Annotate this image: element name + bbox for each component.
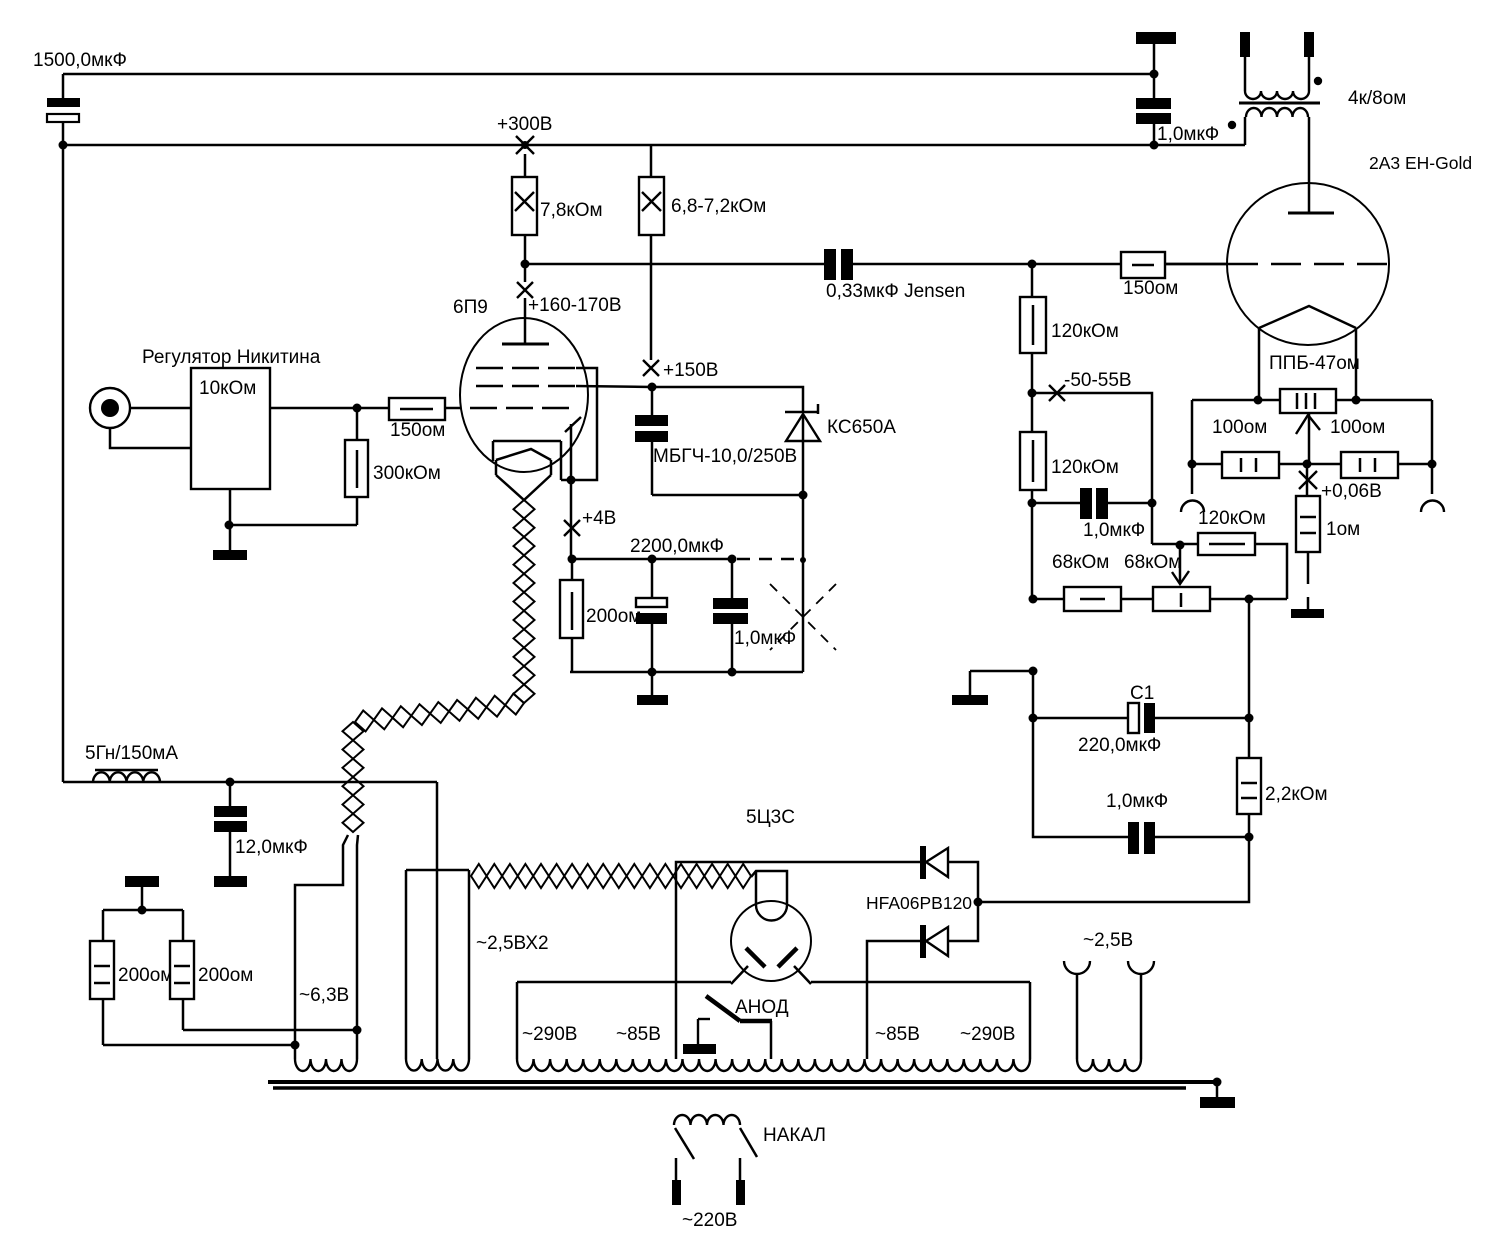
wire 200ом left return [103,1044,295,1047]
resistor R 150ом (2A3 grid stopper) [1121,252,1227,299]
node 1,0мкФ left junction [1028,499,1037,508]
wire screen to +150V node [576,386,652,387]
svg-text:4к/8ом: 4к/8ом [1348,88,1406,109]
tube V3 5Ц3С envelope [731,901,811,981]
node wiper feed junction [1176,541,1185,550]
node core ground [1213,1078,1222,1087]
zener diode КС650А [785,404,896,495]
node filament left junction [1254,396,1263,405]
svg-text:~6,3В: ~6,3В [299,985,349,1006]
wire regulator bottom [229,489,232,550]
winding ~2,5ВХ2 [406,782,469,1071]
svg-text:220,0мкФ: 220,0мкФ [1078,735,1161,756]
node hum rail left [1188,460,1197,469]
node 1,0мкФ top [728,555,737,564]
node cathode bottom left [648,668,657,677]
node 1,0мкФ right junction [1148,499,1157,508]
capacitor C 1,0мкФ (top right) [1136,74,1219,145]
wire hum left drop [1191,400,1194,464]
svg-text:12,0мкФ: 12,0мкФ [235,837,308,858]
node filament right junction [1352,396,1361,405]
resistor R 300кОм [345,408,441,525]
capacitor C 1,0мкФ (cathode) [713,559,796,672]
capacitor C 2200,0мкФ [630,536,724,672]
6П9 cathode lead slash [565,417,581,432]
svg-text:АНОД: АНОД [735,997,789,1018]
wire hum right drop [1431,400,1434,464]
svg-text:C1: C1 [1130,683,1154,704]
node regulator ground junction [225,521,234,530]
svg-text:2A3 EH-Gold: 2A3 EH-Gold [1369,153,1472,173]
wire bias takeoff [1032,393,1152,544]
node 300кОм junction [353,404,362,413]
capacitor C 1500,0мкФ [33,50,127,145]
wire coupling line right [853,263,1121,266]
resistor R 100ом (right) [1341,452,1398,478]
resistor R 6,8-7,2кОм [639,145,766,360]
2A3 anode [1288,212,1334,215]
svg-text:~290В: ~290В [522,1024,577,1045]
diode D1 HFA06PB120 [920,846,978,902]
wire diode2 to 85V tap [867,941,920,1059]
node diode junction [974,898,983,907]
wire heater to filament [751,871,787,905]
6П9 heater zigzag vertical [514,500,535,703]
wire cathode bottom rail [570,671,803,674]
node ground rail / cap junction [1150,70,1159,79]
wire ground rail top [63,73,1154,76]
ground regulator [213,550,247,560]
wire jack ground side [110,428,191,448]
wire 200ом feed [103,910,183,941]
output transformer phasing dot secondary [1314,77,1322,85]
ground 200ом network [125,876,159,910]
svg-text:+0,06В: +0,06В [1321,481,1382,502]
node ground tie junction [1029,667,1038,676]
wire coupling line [525,263,824,266]
svg-text:-50-55В: -50-55В [1064,370,1132,391]
winding НАКАЛ primary [672,1115,826,1231]
resistor R 200ом (right) [170,941,253,1030]
node 6,3V winding right junction [353,1026,362,1035]
node +150V junction [648,383,657,392]
svg-text:100ом: 100ом [1330,417,1385,438]
connector hook right [1421,464,1444,512]
ППБ wiper arrow [1296,414,1320,464]
transformer core [268,1082,1217,1088]
wire heater lead right [357,835,358,1059]
ground cathode network [637,672,668,705]
svg-text:1ом: 1ом [1326,519,1360,540]
svg-text:10кОм: 10кОм [199,378,256,399]
svg-text:300кОм: 300кОм [373,463,441,484]
svg-text:120кОм: 120кОм [1051,321,1119,342]
wire +150V to zener [652,387,803,413]
svg-text:HFA06PB120: HFA06PB120 [866,893,972,913]
wire cathode drop [570,424,573,559]
wire rectifier output [978,814,1249,902]
wire hum rail [1192,463,1432,466]
tube V2 2A3 envelope [1227,183,1389,345]
labels 68кОм 68кОм [1052,552,1181,573]
wire dashed link [737,558,800,561]
svg-text:ППБ-47ом: ППБ-47ом [1269,353,1360,374]
svg-text:МБГЧ-10,0/250В: МБГЧ-10,0/250В [653,446,797,467]
node suppressor/cathode junction [567,476,576,485]
6П9 suppressor tie bracket [561,368,597,480]
node bias output junction [1245,595,1254,604]
2A3 grid dashed [1165,263,1228,266]
svg-text:+150В: +150В [663,360,718,381]
node hum rail center [1303,460,1312,469]
svg-text:+300В: +300В [497,114,552,135]
node 2200мкФ top [648,555,657,564]
ground bias network [952,671,1033,705]
6П9 heater zigzag lower [343,722,364,832]
resistor R 120кОм (upper) [1020,264,1119,432]
wire 200ом right return [183,1029,357,1032]
winding ~2,5В [1064,930,1154,1071]
wire МБГЧ return [652,494,803,497]
svg-text:0,33мкФ Jensen: 0,33мкФ Jensen [826,281,965,302]
node 6,3V winding left junction [291,1041,300,1050]
svg-text:+4В: +4В [582,508,616,529]
node -50-55V junction [1028,389,1037,398]
svg-text:68кОм: 68кОм [1124,552,1181,573]
6П9 cathode [493,441,561,500]
ground core shield [1200,1082,1235,1108]
wire filament rail [1192,399,1432,402]
svg-text:~85В: ~85В [616,1024,661,1045]
svg-text:1,0мкФ: 1,0мкФ [1106,791,1168,812]
wire 300кОм return [229,524,357,527]
svg-text:2200,0мкФ: 2200,0мкФ [630,536,724,557]
6П9 anode [502,298,549,344]
wire bias filter drop [1248,599,1251,758]
test point +4В [564,508,616,536]
resistor R 120кОм (feedback) [1152,508,1287,599]
choke 5Гн/150мА [63,743,437,782]
switch АНОД [683,996,789,1059]
wire bias chain drop [1033,671,1128,837]
resistor R 2,2кОм [1237,758,1328,814]
svg-text:200ом: 200ом [118,965,173,986]
resistor R 150ом (input) [389,398,461,441]
svg-text:200ом: 200ом [198,965,253,986]
node +300V rail junction [1150,141,1159,150]
node cathode bottom right [728,668,737,677]
svg-text:5Гн/150мА: 5Гн/150мА [85,743,178,764]
resistor R 200ом (left) [90,941,173,1045]
svg-text:1,0мкФ: 1,0мкФ [734,628,796,649]
svg-text:100ом: 100ом [1212,417,1267,438]
node zener bottom junction [799,491,808,500]
svg-text:2,2кОм: 2,2кОм [1265,784,1328,805]
svg-text:1,0мкФ: 1,0мкФ [1157,124,1219,145]
output transformer core [1239,102,1320,105]
capacitor C 0,33мкФ Jensen [824,249,965,302]
potentiometer ППБ-47ом [1280,389,1336,413]
node B+ left junction [59,141,68,150]
svg-text:200ом: 200ом [586,606,641,627]
rectifier heater zigzag ~2,5ВХ2 [471,864,751,888]
wire zener drop [802,495,805,672]
wire left B+ drop [62,145,65,782]
wire regulator output [270,407,389,410]
output transformer terminal bars [1240,32,1314,57]
svg-text:150ом: 150ом [390,420,445,441]
svg-text:6,8-7,2кОм: 6,8-7,2кОм [671,196,766,217]
6П9 control grid row [470,407,572,410]
resistor R 100ом (left) [1222,452,1279,478]
test point +150В [643,360,718,381]
svg-text:1500,0мкФ: 1500,0мкФ [33,50,127,71]
node 12,0мкФ junction [226,778,235,787]
test point +160-170В [517,264,622,316]
Никитин regulator box 10кОм [142,347,321,489]
capacitor C МБГЧ-10,0/250В [635,387,797,495]
node cathode rail left [568,555,577,564]
svg-text:~2,5В: ~2,5В [1083,930,1133,951]
wire heater lead left [295,835,348,1059]
svg-text:1,0мкФ: 1,0мкФ [1083,520,1145,541]
5Ц3С anode plates [731,948,811,984]
svg-text:7,8кОм: 7,8кОм [540,200,603,221]
svg-text:КС650А: КС650А [827,417,896,438]
node 68кОм rail left [1029,595,1038,604]
2A3 filament [1259,306,1356,400]
output transformer primary [1245,108,1309,213]
output transformer phasing dot primary [1228,121,1236,129]
svg-text:Регулятор Никитина: Регулятор Никитина [142,347,321,368]
potentiometer R 68кОм [1153,587,1287,611]
connector hook left [1181,464,1204,512]
6П9 suppressor grid row [476,367,576,370]
6П9 screen grid row [476,385,576,388]
diode D2 HFA06PB120 [920,902,978,958]
test point +0,06В [1299,471,1382,502]
resistor R 1ом [1296,464,1360,609]
svg-text:150ом: 150ом [1123,278,1178,299]
test point -50-55В [1049,370,1132,401]
resistor R 7,8кОм [512,154,603,264]
svg-text:6П9: 6П9 [453,297,488,318]
node hum rail right [1428,460,1437,469]
svg-text:~290В: ~290В [960,1024,1015,1045]
winding ~6,3В [295,1059,357,1071]
wire +300V rail [63,144,1245,147]
capacitor C 1,0мкФ (bias bottom) [1106,791,1249,854]
node 2A3 grid feed junction [1028,260,1037,269]
node C1 right junction [1245,714,1254,723]
test point +300В [497,114,552,154]
input jack [90,388,130,428]
svg-text:120кОм: 120кОм [1198,508,1266,529]
svg-text:~2,5ВХ2: ~2,5ВХ2 [476,933,549,954]
svg-text:НАКАЛ: НАКАЛ [763,1125,826,1146]
capacitor C 12,0мкФ [214,782,308,876]
svg-text:+160-170В: +160-170В [528,295,622,316]
node 1,0мкФ bottom right junction [1245,833,1254,842]
svg-text:68кОм: 68кОм [1052,552,1109,573]
ground 1ом [1291,609,1324,618]
pot wiper arrow [1172,545,1189,584]
svg-text:5Ц3С: 5Ц3С [746,807,795,828]
svg-text:~220В: ~220В [682,1210,737,1231]
resistor R 200ом (cathode) [560,559,641,672]
resistor R 120кОм (lower) [1020,432,1119,599]
wire B+ takeoff [676,862,921,1059]
resistor R 68кОм (fixed) [1033,587,1153,611]
svg-text:~85В: ~85В [875,1024,920,1045]
ground 12,0мкФ [214,876,247,887]
5Ц3С filament hook [756,871,787,921]
capacitor C 1,0мкФ (bias) [1032,488,1152,541]
wire jack to regulator [130,407,191,410]
svg-text:120кОм: 120кОм [1051,457,1119,478]
ground top-right [1136,32,1176,74]
output transformer secondary [1245,57,1309,99]
labels 100ом [1212,417,1385,438]
tube V1 6П9 envelope [460,318,588,472]
node C1 left junction [1029,714,1038,723]
capacitor C1 220,0мкФ [1033,683,1249,756]
node 6П9 anode junction [521,260,530,269]
crossed-out element dashed X [770,584,836,650]
winding HV secondary [517,1059,1030,1071]
wire HV plate rail [517,982,1030,1059]
wire cathode rail [571,558,733,561]
6П9 heater zigzag diagonal [355,694,524,732]
node dashed link end [800,557,806,563]
node 200ом tie [138,906,147,915]
